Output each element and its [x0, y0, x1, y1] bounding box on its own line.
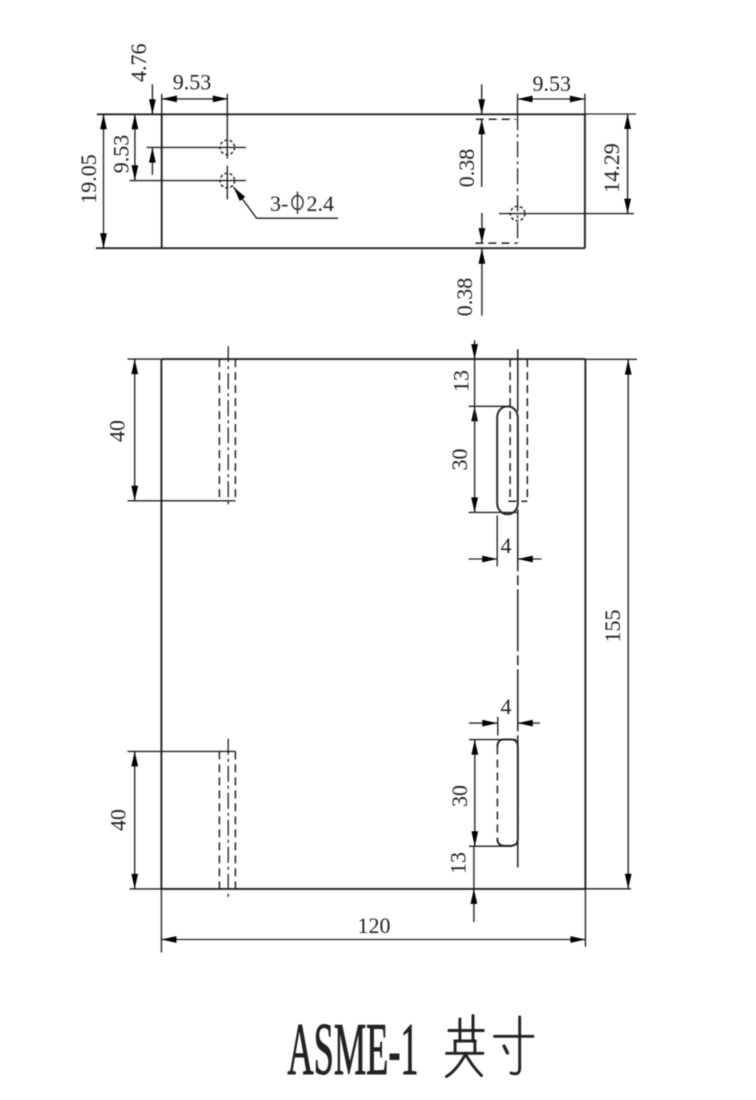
- svg-text:3-: 3-: [270, 191, 288, 216]
- svg-text:ASME-1: ASME-1: [287, 1009, 418, 1091]
- svg-text:155: 155: [600, 610, 625, 643]
- leader line for 3-phi2.4: [234, 187, 339, 218]
- top slot obround: [497, 406, 518, 514]
- title char YING stroke grass-top horizontal: [447, 1016, 533, 1077]
- svg-text:9.53: 9.53: [173, 70, 212, 95]
- top view: right edge extension above: [584, 94, 586, 115]
- right tab top: hidden line 1: [509, 359, 511, 501]
- dimension 9.53 left arrow left: [162, 96, 177, 103]
- dimension 19.05 line: [103, 114, 105, 248]
- top view: top edge extension right for 14.29: [585, 113, 636, 115]
- left tab bottom: hidden line 1: [218, 751, 220, 889]
- dimension 13 bottom arrow up below edge: [471, 889, 478, 904]
- top slot extension line top for 30: [469, 405, 511, 407]
- dimension 4 bottom left segment: [469, 722, 497, 724]
- dimension 4 top arrow right: [482, 556, 497, 563]
- left tab top: hidden line 1: [218, 359, 220, 501]
- svg-text:40: 40: [105, 420, 130, 442]
- top slot extension line bottom for 30: [469, 511, 519, 513]
- title char YING box left: [454, 1041, 457, 1053]
- dimension 120 line: [161, 939, 585, 941]
- top view: left edge extension above: [161, 94, 163, 114]
- dimension 9.53 left arrow right: [213, 96, 228, 103]
- left tab top: hidden line 2: [234, 359, 236, 501]
- hole C2 vertical crosshair: [226, 166, 228, 200]
- dimension 9.53 rotated arrow down: [132, 165, 139, 180]
- dimension 19.05 arrow down: [100, 233, 107, 248]
- dimension 13 top arrow down: [471, 344, 478, 359]
- dimension 0.38 bottom lower tail: [481, 249, 483, 316]
- title char YING right-falling stroke: [465, 1053, 482, 1075]
- hole C3 horizontal crosshair + extension right for 14.29: [499, 213, 634, 215]
- dimension 40 bottom arrow down: [131, 874, 138, 889]
- svg-text:30: 30: [447, 449, 472, 471]
- hole C2 horizontal crosshair: [130, 180, 246, 182]
- left tab top: center line: [227, 346, 229, 507]
- dimension 40 top arrow up: [131, 359, 138, 374]
- svg-text:4: 4: [501, 533, 512, 558]
- svg-text:2.4: 2.4: [307, 191, 335, 216]
- dimension 13 top arrow up: [471, 406, 478, 421]
- top view: bottom edge: [96, 247, 585, 249]
- dimension 30 bottom arrow up: [471, 740, 478, 755]
- dimension 30 bottom line: [474, 740, 476, 847]
- bottom slot obround solid part: [497, 739, 517, 845]
- dimension 155 arrow up: [625, 360, 632, 375]
- dimension 0.38 top upper tail: [481, 84, 483, 114]
- dimension 9.53 rotated line: [134, 114, 136, 180]
- svg-text:40: 40: [106, 809, 131, 831]
- left tab top: end edge with extension: [128, 500, 236, 502]
- dimension 4 bottom arrow left: [518, 720, 533, 727]
- dimension 40 top arrow down: [131, 486, 138, 501]
- svg-text:13: 13: [446, 852, 471, 874]
- top view: hidden tab edge bottom 0.38: [475, 242, 517, 244]
- dimension 9.53 right extension left: [517, 94, 519, 115]
- left tab bottom: center line: [227, 739, 229, 900]
- front view: left edge: [160, 359, 162, 889]
- label phi symbol stroke: [297, 192, 299, 215]
- title char YING grass-top right vertical: [472, 1016, 475, 1042]
- bottom slot extension line bottom for 30: [469, 845, 512, 847]
- title char YING long horizontal: [447, 1052, 483, 1055]
- top view: hidden tab edge top 0.38: [476, 118, 516, 120]
- svg-text:14.29: 14.29: [599, 143, 624, 193]
- dimension 19.05 arrow up: [100, 114, 107, 129]
- svg-text:30: 30: [447, 785, 472, 807]
- dimension 9.53 rotated arrow up: [132, 114, 139, 129]
- front view: right edge: [584, 359, 586, 889]
- dimension 155 line: [627, 360, 629, 889]
- dimension 4.76 lower tail: [151, 148, 153, 175]
- dimension 4 bottom right segment: [518, 722, 540, 724]
- dimension 4 bottom extension above slot: [497, 717, 499, 736]
- right bend center line: [517, 349, 519, 867]
- front view: bottom edge with extensions: [161, 888, 585, 890]
- dimension 13 bottom line: [473, 846, 475, 922]
- top view: left edge (fold line): [161, 114, 163, 248]
- dimension 4.76 upper tail: [151, 84, 153, 114]
- bottom slot extension line top for 30: [469, 739, 516, 741]
- dimension 9.53 right arrow right: [570, 96, 585, 103]
- dimension 40 bottom line: [134, 751, 136, 889]
- svg-text:120: 120: [358, 913, 391, 938]
- svg-text:9.53: 9.53: [533, 71, 572, 96]
- front view: right edge extension below for 120: [584, 889, 586, 947]
- front view: left edge extension below for 120: [160, 889, 162, 953]
- dimension 30 top arrow down: [471, 497, 478, 512]
- svg-text:19.05: 19.05: [76, 154, 101, 204]
- dimension 0.38 bottom upper arrow down: [479, 228, 486, 243]
- dimension 0.38 bottom upper tail: [481, 213, 483, 243]
- dimension 4 bottom arrow right: [482, 720, 497, 727]
- title char CUN vertical hook: [511, 1017, 520, 1074]
- title char CUN dot: [504, 1046, 508, 1053]
- dimension 30 bottom arrow down: [471, 831, 478, 846]
- dimension 120 arrow left: [161, 936, 176, 943]
- svg-text:4.76: 4.76: [126, 44, 151, 83]
- svg-text:13: 13: [449, 370, 474, 392]
- dimension 9.53 left horizontal line: [162, 98, 228, 100]
- dimension 30 top line: [474, 406, 476, 512]
- dimension 120 arrow right: [570, 936, 585, 943]
- top view: bend center line: [517, 114, 519, 243]
- hole C1 circle: [220, 140, 235, 155]
- title char YING grass-top left vertical: [458, 1019, 461, 1041]
- dimension 4.76 lower arrow up: [149, 148, 156, 163]
- dimension 0.38 top upper arrow down: [478, 99, 485, 114]
- dimension 4 top left segment: [469, 558, 498, 560]
- right tab top: hidden line 2: [526, 359, 528, 501]
- dimension 155 arrow down: [625, 874, 632, 889]
- front view: top edge with extensions: [161, 358, 585, 360]
- dimension 40 top line: [134, 359, 136, 501]
- hole C1 horizontal crosshair: [147, 146, 246, 148]
- dimension 9.53 right arrow left: [518, 96, 533, 103]
- top view: right edge: [584, 114, 586, 248]
- dimension 4 top arrow left: [518, 556, 533, 563]
- svg-text:0.38: 0.38: [452, 278, 477, 317]
- dimension 4 top right segment: [518, 558, 542, 560]
- title char CUN horizontal: [495, 1035, 533, 1038]
- title char YING box top: [455, 1040, 476, 1043]
- left tab bottom: hidden line 2: [234, 751, 236, 889]
- hole C3 circle: [510, 206, 525, 221]
- dimension 9.53 right line: [518, 98, 585, 100]
- top view: top edge: [97, 113, 585, 115]
- hole C1 vertical crosshair + extension above: [226, 94, 228, 158]
- svg-text:4: 4: [501, 694, 512, 719]
- dimension 14.29 arrow down: [624, 199, 631, 214]
- right tab top: hidden end edge: [508, 500, 527, 502]
- svg-text:9.53: 9.53: [109, 135, 134, 174]
- bottom slot hidden left edge: [496, 747, 498, 839]
- left tab bottom: end edge with extension: [128, 750, 236, 752]
- title char YING left-falling stroke: [447, 1053, 467, 1076]
- label phi symbol circle: [292, 196, 303, 210]
- title char YING box right: [473, 1041, 476, 1053]
- dimension 40 bottom arrow up: [131, 751, 138, 766]
- hole C2 circle: [220, 173, 235, 188]
- dimension 0.38 bottom lower arrow up: [479, 249, 486, 264]
- leader arrow: [231, 185, 245, 201]
- dimension 0.38 top lower tail: [481, 119, 483, 187]
- dimension 4.76 upper arrow down: [149, 99, 156, 114]
- dimension 4 top extension below slot: [496, 516, 498, 567]
- dimension 13 top line: [474, 340, 476, 406]
- dimension 14.29 arrow up: [624, 114, 631, 129]
- dimension 0.38 top lower arrow up: [478, 119, 485, 134]
- dimension 14.29 line: [627, 114, 629, 214]
- svg-text:0.38: 0.38: [454, 149, 479, 188]
